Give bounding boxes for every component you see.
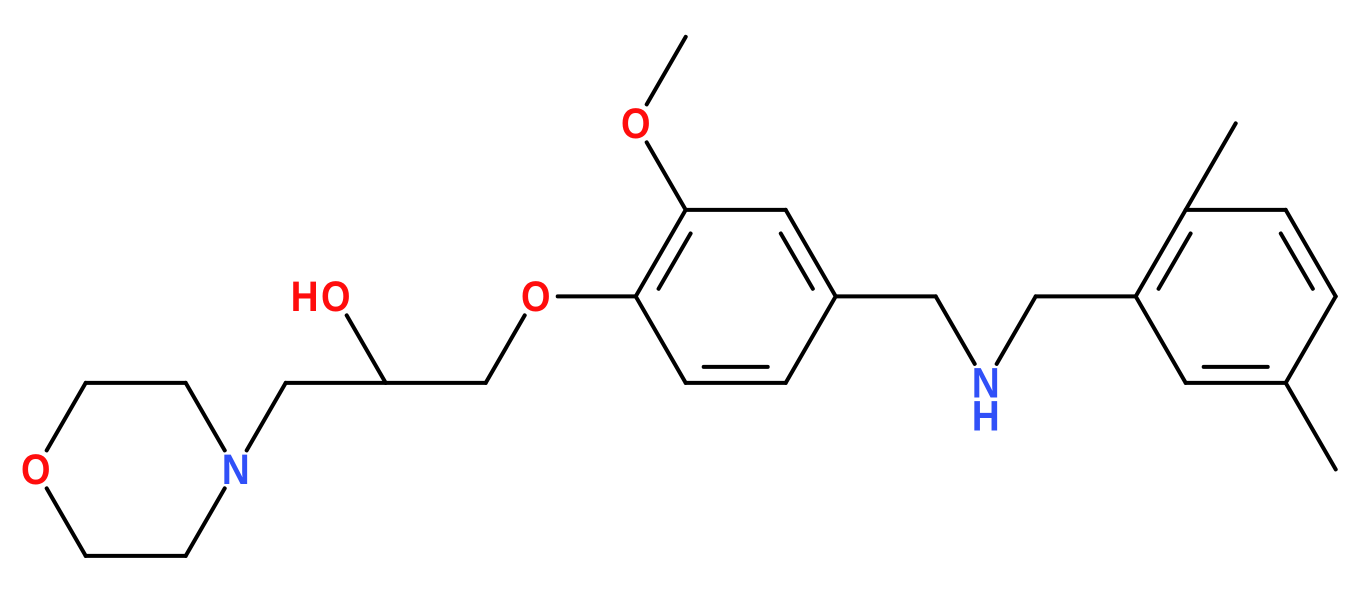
- svg-text:N: N: [222, 446, 250, 494]
- benzene bond C4-C5: [786, 296, 836, 383]
- bond CH-OH: [347, 315, 386, 383]
- benzene bond C6-C1: [636, 296, 686, 383]
- morpholine bond O-C2: [47, 383, 86, 451]
- bond CH2-O ether: [486, 315, 525, 383]
- bond C2-O methoxy: [647, 142, 686, 210]
- xylyl bond C5=C6: [1186, 381, 1286, 385]
- xylyl bond C3=C4: [1286, 210, 1336, 297]
- svg-text:H: H: [972, 392, 1000, 440]
- bond CH2-NH: [936, 296, 975, 364]
- benzene bond C5=C6: [686, 381, 786, 385]
- morpholine bond C2-C3: [86, 381, 186, 385]
- bond CH2-CH: [286, 381, 386, 385]
- morpholine bond N-C5: [186, 488, 225, 556]
- benzene bond C3=C4: [786, 210, 836, 297]
- xylyl bond C3=C4 inner: [1281, 234, 1313, 289]
- bond C2-CH3: [1186, 123, 1236, 209]
- bond C4-CH2 benzylic: [836, 294, 936, 298]
- xylyl bond C5=C6 inner: [1204, 365, 1268, 369]
- svg-text:O: O: [321, 273, 351, 321]
- xylyl bond C1=C2 inner: [1159, 234, 1191, 289]
- xylyl bond C4-C5: [1286, 296, 1336, 383]
- morpholine bond C3-N: [186, 383, 225, 451]
- svg-text:O: O: [21, 446, 51, 494]
- bond O-C1 aryl: [558, 294, 636, 298]
- benzene bond C1=C2 inner: [659, 234, 691, 289]
- svg-text:O: O: [621, 100, 651, 148]
- bond CH2-C1 xylyl: [1036, 294, 1136, 298]
- bond O-CH3: [647, 37, 686, 105]
- benzene bond C2-C3: [686, 208, 786, 212]
- xylyl bond C2-C3: [1186, 208, 1286, 212]
- bond C5-CH3: [1286, 383, 1336, 470]
- bond NH-CH2: [997, 296, 1036, 364]
- bond N-CH2: [247, 383, 286, 451]
- xylyl bond C6-C1: [1136, 296, 1186, 383]
- svg-text:H: H: [291, 273, 319, 321]
- svg-text:O: O: [521, 273, 551, 321]
- bond CH-CH2: [386, 381, 486, 385]
- morpholine bond C6-O: [47, 488, 86, 556]
- benzene bond C5=C6 inner: [704, 365, 768, 369]
- xylyl bond C1=C2: [1136, 210, 1186, 297]
- benzene bond C1=C2: [636, 210, 686, 297]
- morpholine bond C5-C6: [86, 554, 186, 558]
- benzene bond C3=C4 inner: [781, 234, 813, 289]
